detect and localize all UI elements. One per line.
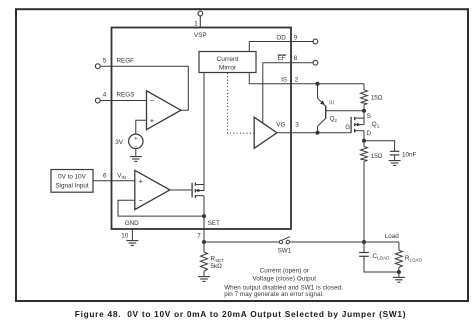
terminal VSP pin 1 — [198, 11, 203, 27]
svg-text:15Ω: 15Ω — [371, 95, 383, 102]
wire GND pin to ground — [131, 229, 133, 241]
junction VG node — [316, 131, 320, 135]
wire dotted mirror control — [228, 73, 255, 133]
svg-text:Mirror: Mirror — [219, 65, 237, 72]
terminal REGS pin 4 — [95, 98, 100, 103]
switch SW1 — [279, 237, 290, 244]
junction S node — [362, 109, 366, 113]
junction SET feedback — [202, 214, 206, 218]
wire VG pin 3 — [277, 132, 351, 134]
resistor R1 15ohm — [361, 84, 368, 111]
svg-text:Figure 48. 0V to 10V or 0mA t: Figure 48. 0V to 10V or 0mA to 20mA Outp… — [75, 309, 406, 319]
svg-text:Current (open) or: Current (open) or — [260, 267, 309, 274]
svg-text:−: − — [139, 196, 144, 205]
current mirror U2 — [199, 52, 256, 73]
wire REGS to A1 inverting input — [100, 100, 146, 102]
ground C1 — [389, 161, 401, 166]
terminal EF pin 8 — [313, 60, 318, 65]
svg-text:10nF: 10nF — [402, 152, 417, 159]
wire REGF to A1 output — [100, 66, 188, 110]
terminal REGF pin 5 — [95, 64, 100, 69]
svg-text:EF: EF — [278, 55, 286, 62]
ground GND pin — [126, 241, 138, 246]
wire mirror to OD — [249, 42, 313, 52]
input source box — [51, 170, 93, 193]
svg-text:+: + — [134, 136, 138, 142]
svg-text:VG: VG — [276, 122, 285, 129]
svg-text:+: + — [139, 176, 144, 185]
wire mirror to M1 drain — [203, 73, 205, 185]
wire EF — [263, 63, 313, 123]
wire load node to RLOAD — [364, 241, 399, 243]
svg-text:OD: OD — [276, 35, 286, 42]
svg-text:REGF: REGF — [117, 57, 135, 64]
svg-text:2: 2 — [295, 76, 299, 83]
svg-text:5: 5 — [103, 57, 107, 64]
svg-text:Voltage (close) Output: Voltage (close) Output — [252, 276, 316, 283]
wire mirror to IS — [248, 73, 250, 84]
ground RSET — [198, 277, 210, 282]
svg-text:1: 1 — [194, 21, 198, 28]
svg-text:SET: SET — [208, 220, 220, 227]
svg-text:15Ω: 15Ω — [371, 153, 383, 160]
ground 3V source — [130, 157, 142, 162]
svg-text:S: S — [367, 113, 371, 120]
capacitor C1 10nF — [364, 141, 399, 161]
svg-text:GND: GND — [125, 220, 139, 227]
svg-text:3: 3 — [295, 122, 299, 129]
resistor RSET — [201, 242, 208, 277]
svg-text:−: − — [150, 96, 155, 105]
svg-text:4: 4 — [103, 92, 107, 99]
op-amp A3 driver — [254, 117, 277, 148]
wire IS pin 2 — [249, 83, 364, 85]
svg-text:10: 10 — [121, 232, 129, 239]
wire to load ground — [398, 272, 400, 277]
op-amp A1 — [147, 91, 181, 130]
ground load — [393, 277, 405, 282]
wire A2 feedback to SET — [118, 200, 204, 216]
mosfet Q1 — [351, 111, 364, 141]
junction load ground node — [397, 270, 401, 274]
wire SW1 to load — [290, 241, 365, 243]
svg-text:3V: 3V — [115, 139, 124, 146]
svg-text:G: G — [345, 124, 350, 131]
svg-text:IS: IS — [281, 76, 287, 83]
terminal OD pin 9 — [313, 39, 318, 44]
svg-text:Load: Load — [385, 233, 400, 240]
wire A2 output to M1 gate — [170, 189, 192, 191]
svg-text:5kΩ: 5kΩ — [211, 263, 223, 270]
svg-text:Signal Input: Signal Input — [55, 183, 89, 190]
wire 3V to ground — [135, 149, 137, 157]
capacitor CLOAD — [359, 242, 399, 272]
wire M1 source to SET pin — [203, 196, 205, 229]
svg-text:SW1: SW1 — [278, 248, 292, 255]
mosfet M1 internal — [192, 182, 204, 198]
wire pin7 to SW1 — [204, 241, 279, 243]
svg-text:0V to 10V: 0V to 10V — [58, 174, 86, 181]
op-amp A2 — [135, 170, 170, 209]
svg-text:VSP: VSP — [194, 32, 207, 39]
wire VIN to A2 — [93, 180, 135, 182]
junction D node — [362, 139, 366, 143]
svg-text:D: D — [367, 130, 372, 137]
junction load node — [362, 240, 366, 244]
svg-text:7: 7 — [197, 232, 201, 239]
svg-text:+: + — [150, 116, 155, 125]
junction IS node — [316, 82, 320, 86]
wire A1 noninverting input to 3V — [136, 120, 147, 134]
svg-text:9: 9 — [294, 35, 298, 42]
svg-text:6: 6 — [103, 173, 107, 180]
svg-text:(1): (1) — [329, 100, 335, 105]
svg-text:Current: Current — [217, 56, 239, 63]
transistor Q2 — [318, 84, 365, 133]
wire SET pin to junction — [203, 229, 205, 242]
svg-text:8: 8 — [294, 55, 298, 62]
resistor RLOAD — [395, 242, 402, 272]
svg-text:pin 7 may generate an error si: pin 7 may generate an error signal. — [224, 291, 324, 298]
resistor R2 15ohm — [361, 141, 368, 242]
svg-text:REGS: REGS — [117, 92, 135, 99]
junction pin 7 node — [202, 240, 206, 244]
voltage source 3V — [115, 134, 143, 150]
IC U1 outline — [112, 28, 292, 230]
